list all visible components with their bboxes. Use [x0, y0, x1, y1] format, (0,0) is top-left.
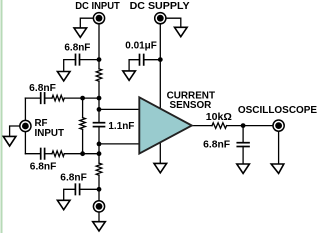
ground (C6)	[57, 200, 70, 209]
capacitor C1 6.8nF plates	[76, 54, 80, 64]
wire: 1.1nF cap bottom down to lower node	[98, 127, 100, 164]
node: RF top branch / main	[97, 96, 102, 101]
op-amp U1 current sensor body	[139, 97, 192, 153]
connector J1 DC INPUT	[93, 13, 104, 24]
wire: sensor bottom input	[99, 143, 139, 145]
node: sensor top input tap	[97, 107, 102, 112]
node: RF top branch / shunt resistor	[80, 96, 85, 101]
connector J3 RF INPUT	[20, 120, 31, 131]
svg-text:SENSOR: SENSOR	[170, 100, 212, 111]
ground (C1)	[57, 72, 70, 81]
wire: node A down through 1.1nF cap top	[98, 81, 100, 123]
node: sensor bottom input tap	[97, 142, 102, 147]
wire: DC SUPPLY shell to ground elbow	[166, 18, 181, 27]
wire: bottom resistor to output jack	[98, 175, 100, 201]
ground (DC input shell)	[74, 28, 87, 37]
ground (bottom jack shell)	[93, 222, 106, 231]
wire: RF top branch middle segment	[45, 97, 52, 99]
wire: DC SUPPLY rail down to sensor ground (passes behind sensor)	[159, 24, 161, 163]
wire: RF INPUT shell to ground elbow	[10, 126, 20, 136]
resistor (DC input series, vertical)	[96, 69, 102, 81]
wire: RF bottom branch middle segment	[45, 153, 52, 155]
wire: shunt resistor branch upper lead	[82, 98, 84, 118]
wire: capacitor C1 left lead to ground	[64, 60, 76, 72]
ground (current sensor)	[154, 163, 167, 172]
capacitor C7 6.8nF plates (output)	[237, 143, 249, 147]
svg-text:0.01μF: 0.01μF	[125, 41, 157, 52]
wire: DC INPUT shell to ground elbow	[80, 18, 93, 28]
decorative left green border	[1, 0, 3, 233]
wire: capacitor C6 right lead	[80, 188, 99, 190]
resistor (RF top branch, horizontal)	[52, 95, 64, 101]
node: DC supply / C2 junction	[158, 57, 163, 62]
ground (DC supply shell)	[175, 27, 188, 36]
wire: RF INPUT jack up to top branch	[24, 98, 26, 120]
wire: oscilloscope shell to ground	[278, 132, 280, 165]
svg-text:6.8nF: 6.8nF	[30, 162, 57, 173]
ground (oscilloscope shell)	[271, 164, 284, 173]
node: RF bottom branch / shunt resistor	[80, 151, 85, 156]
wire: capacitor C6 left lead to ground	[64, 189, 76, 200]
resistor R 10k (horizontal)	[212, 123, 227, 129]
connector J5 output jack	[93, 201, 104, 212]
wire: 10k resistor to oscilloscope jack	[227, 125, 273, 127]
wire: output cap lower lead to ground	[242, 147, 244, 165]
connector J2 DC SUPPLY	[155, 13, 166, 24]
svg-text:DC SUPPLY: DC SUPPLY	[130, 1, 190, 12]
wire: capacitor C1 right lead	[80, 59, 100, 61]
ground (C2)	[123, 71, 136, 80]
svg-text:6.8nF: 6.8nF	[203, 139, 230, 150]
wire: RF top branch left segment	[25, 97, 40, 99]
wire: DC INPUT jack down to resistor	[98, 24, 100, 69]
wire: RF top branch to main node	[64, 97, 99, 99]
capacitor C2 0.01uF plates	[140, 55, 144, 65]
capacitor C5 1.1nF plates	[94, 123, 105, 127]
wire: RF bottom branch to main node	[64, 153, 99, 155]
capacitor C4 6.8nF plates (RF bottom)	[41, 149, 45, 159]
node: DC input / C1 junction	[97, 57, 102, 62]
ground (RF input shell)	[3, 136, 16, 146]
wire: output cap upper lead	[242, 126, 244, 142]
svg-text:OSCILLOSCOPE: OSCILLOSCOPE	[238, 105, 317, 116]
ground (output cap)	[237, 164, 250, 173]
resistor (shunt, vertical)	[80, 118, 86, 130]
wire: sensor top input	[99, 108, 139, 110]
capacitor C3 6.8nF plates (RF top)	[41, 93, 45, 103]
svg-text:1.1nF: 1.1nF	[108, 121, 134, 132]
wire: RF INPUT jack down to bottom branch	[24, 132, 26, 154]
capacitor C6 6.8nF plates (bottom)	[75, 184, 79, 194]
resistor (bottom series, vertical)	[96, 163, 102, 175]
connector J4 OSCILLOSCOPE	[273, 120, 284, 131]
svg-text:DC INPUT: DC INPUT	[75, 1, 120, 12]
wire: shunt resistor branch lower lead	[82, 129, 84, 153]
wire: capacitor C2 right lead	[144, 59, 161, 61]
svg-text:6.8nF: 6.8nF	[60, 173, 87, 184]
svg-text:6.8nF: 6.8nF	[64, 42, 90, 53]
wire: RF bottom branch left segment	[25, 153, 40, 155]
node: output cap junction	[241, 123, 246, 128]
wire: capacitor C2 left lead to ground	[129, 60, 139, 71]
svg-text:6.8nF: 6.8nF	[29, 83, 56, 94]
svg-text:10kΩ: 10kΩ	[206, 112, 232, 123]
wire: sensor output to 10k resistor	[192, 125, 212, 127]
node: RF bottom branch / main	[97, 151, 102, 156]
resistor (RF bottom branch, horizontal)	[52, 151, 64, 157]
svg-text:INPUT: INPUT	[35, 128, 65, 139]
node: C6 junction	[97, 187, 102, 192]
wire: bottom jack shell to ground	[98, 212, 100, 221]
